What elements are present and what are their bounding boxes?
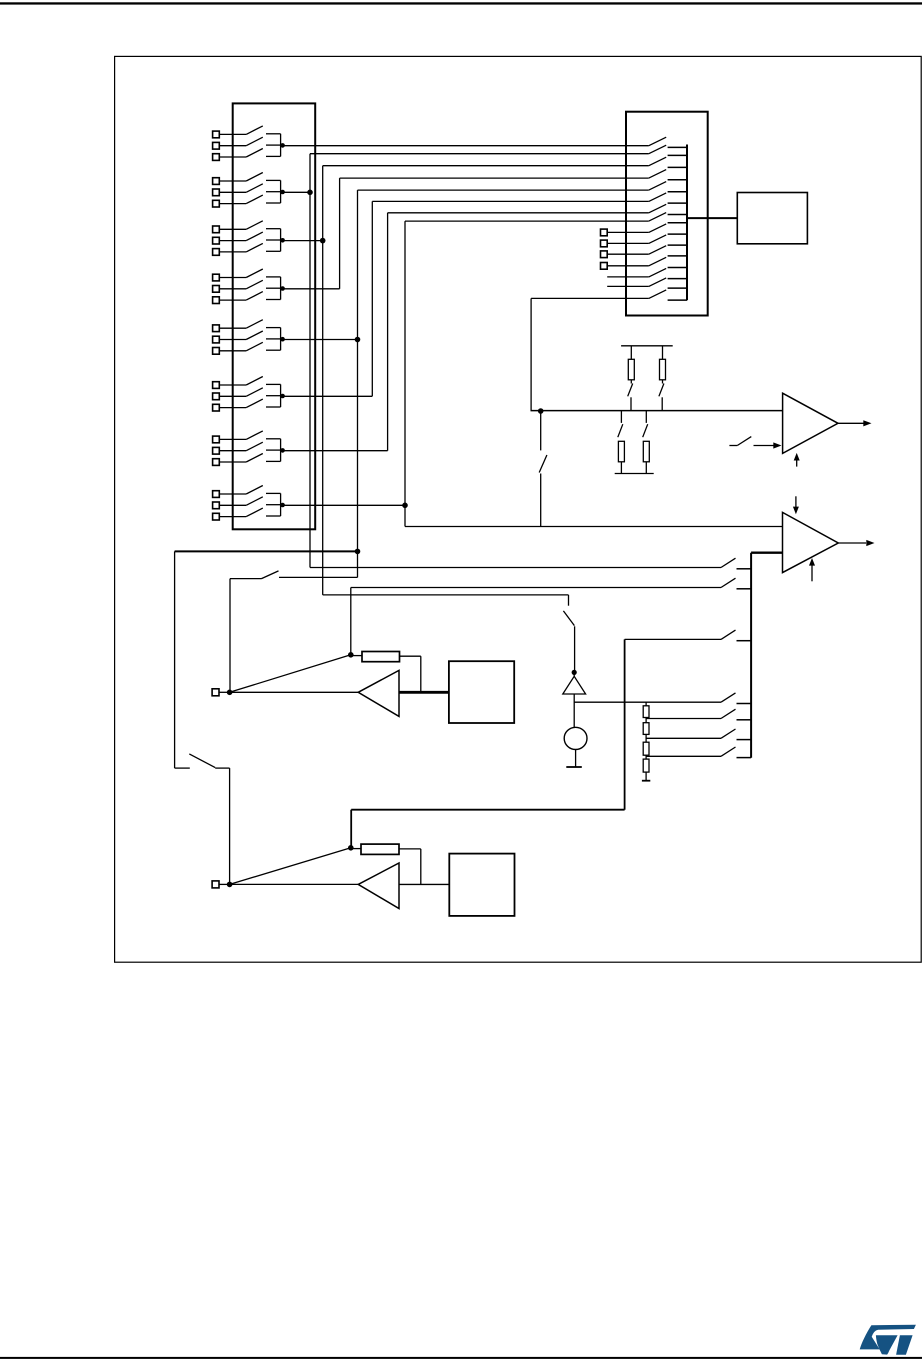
- wire opamp2 input: [230, 883, 359, 885]
- opamp2 input pad: [212, 881, 219, 888]
- down arrow between comparators: [793, 496, 799, 514]
- wire chain tap 1 to rail switch: [646, 718, 721, 720]
- left mux block: [233, 103, 316, 529]
- switch wire A to opamp1 input: [230, 551, 358, 692]
- wire chain tap 3 to rail switch: [646, 755, 721, 757]
- right mux switch 11: [649, 246, 687, 256]
- input pad group 5 with triple switch: [213, 320, 285, 355]
- wire group3 to mux (L-shape): [283, 166, 649, 241]
- wire group2 to rail switch: [310, 192, 721, 567]
- node rail junction: [538, 408, 544, 414]
- wire opamp1 feedback diagonal: [230, 655, 351, 693]
- wire feedback to opamp2 node: [351, 810, 624, 848]
- node A: [355, 549, 361, 555]
- wire chain tap 2 to rail switch: [646, 737, 721, 739]
- switch rail vertical: [750, 553, 752, 758]
- resistor network bottom bar: [615, 473, 654, 475]
- input pad group 4 with triple switch: [213, 269, 285, 304]
- wire feedback column to rail switch: [625, 639, 721, 809]
- opamp1 input pad: [212, 689, 219, 696]
- comparator U1 output arrow: [838, 420, 872, 426]
- wire group7 to mux (L-shape): [283, 213, 649, 451]
- ground resistor chain: [642, 780, 650, 782]
- right mux block: [626, 112, 708, 316]
- right mux switch 2: [649, 145, 687, 155]
- resistor network top bar: [621, 345, 673, 347]
- wire mux15 down to rail: [530, 298, 532, 410]
- mux input pad 2: [601, 240, 649, 247]
- figure frame: [115, 56, 922, 962]
- resistor opamp2 feedback: [351, 844, 421, 884]
- input pad group 7 with triple switch: [213, 431, 285, 466]
- right mux switch 15: [649, 290, 687, 300]
- node opamp1 feedback: [348, 652, 354, 658]
- wire to mux switch 14: [607, 285, 649, 287]
- right mux switch 1: [649, 137, 687, 147]
- wire group1 to mux: [283, 145, 649, 147]
- mux input pad 1: [601, 229, 649, 236]
- input pad group 3 with triple switch: [213, 221, 285, 256]
- input pad group 8 with triple switch: [213, 486, 285, 521]
- right mux switch 12: [649, 257, 687, 267]
- wire A to left column: [175, 550, 358, 552]
- mux input pad 3: [601, 251, 649, 258]
- node group3 junction: [320, 238, 326, 244]
- wire to mux switch 15: [531, 297, 649, 299]
- switch column to opamp2: [175, 551, 230, 884]
- opamp2 input node: [219, 882, 232, 888]
- diode D1: [563, 672, 586, 694]
- DAC block 2: [449, 854, 514, 916]
- right mux switch 4: [649, 170, 687, 180]
- right mux switch 8: [649, 213, 687, 223]
- switch rail to comparator2 wire: [539, 411, 547, 527]
- rail switch 4: [721, 693, 751, 704]
- comparator U2: [783, 512, 839, 572]
- switch into comparator U1 minus input: [729, 437, 781, 449]
- pull-up resistor RA with switch: [628, 346, 635, 411]
- comparator U2 output arrow: [838, 540, 874, 546]
- wire to mux switch 13: [607, 276, 649, 278]
- ST logo: [860, 1325, 916, 1355]
- node opamp2 feedback: [348, 845, 354, 851]
- switch above diode: [563, 611, 574, 673]
- wire opamp2 to DAC2: [399, 883, 449, 885]
- opamp1 buffer: [358, 670, 399, 716]
- analog rail wire: [531, 410, 783, 412]
- opamp1 input node: [219, 690, 232, 696]
- pull-down resistor RC with switch: [618, 411, 625, 474]
- resistor opamp1 feedback: [351, 652, 421, 693]
- wire current source to ground: [575, 750, 577, 768]
- input pad group 2 with triple switch: [213, 173, 285, 208]
- wire group5 to mux (L-shape): [283, 190, 649, 339]
- wire group4 to mux (L-shape): [283, 178, 649, 289]
- rail switch 1: [721, 558, 751, 569]
- rail switch 5: [721, 709, 751, 720]
- rail switch 6: [721, 729, 751, 740]
- rail switch 2: [721, 578, 751, 589]
- node group2 junction: [307, 190, 313, 196]
- resistor chain R1-R4: [643, 702, 649, 781]
- rail switch 3: [721, 630, 751, 641]
- wire group8 to mux (L-shape): [283, 221, 649, 505]
- wire diode junction to rail switch 4: [574, 701, 721, 703]
- right mux switch 6: [649, 193, 687, 203]
- mux output wire: [687, 217, 737, 219]
- node group5 junction: [355, 337, 361, 343]
- right mux bus: [686, 145, 688, 301]
- mux input pad 4: [601, 263, 649, 270]
- comparator U2 clock arrow: [809, 558, 815, 581]
- right mux switch 9: [649, 224, 687, 234]
- comparator U1 clock arrow: [794, 453, 800, 467]
- wire group3 to diode switch: [323, 241, 569, 606]
- ADC block: [737, 193, 807, 244]
- right mux switch 10: [649, 235, 687, 245]
- page bottom rule: [0, 1357, 922, 1359]
- right mux switch 13: [649, 268, 687, 278]
- wire opamp1 input: [230, 691, 359, 693]
- wire group5 junction: [357, 340, 359, 552]
- wire opamp2 feedback diagonal: [230, 848, 351, 885]
- ground current source: [566, 766, 582, 768]
- comparator U1: [783, 393, 838, 453]
- right mux switch 3: [649, 157, 687, 167]
- rail switch 7: [721, 747, 751, 758]
- wire group6 to mux (L-shape): [283, 201, 649, 396]
- input pad group 1 with triple switch: [213, 126, 285, 160]
- pull-down resistor RD with switch: [643, 411, 650, 474]
- right mux switch 5: [649, 182, 687, 192]
- DAC block 1: [449, 661, 514, 723]
- opamp2 buffer: [358, 863, 399, 909]
- pull-up resistor RB with switch: [659, 346, 666, 411]
- input pad group 6 with triple switch: [213, 377, 285, 412]
- right mux switch 7: [649, 204, 687, 214]
- wire opamp1 to DAC1: [399, 691, 449, 694]
- current source I1: [564, 727, 587, 749]
- wire group8 to comparator U2 plus input: [405, 505, 783, 526]
- wire opamp1 node to rail switch: [351, 588, 721, 655]
- wire group2 to mux (L-shape): [283, 154, 649, 193]
- node diode top: [572, 670, 577, 675]
- wire diode to current source: [573, 694, 575, 727]
- wire rail to comparator U2 minus input: [751, 552, 782, 554]
- page top rule: [0, 2, 922, 4]
- right mux switch 14: [649, 278, 687, 288]
- node group8 junction: [402, 503, 408, 509]
